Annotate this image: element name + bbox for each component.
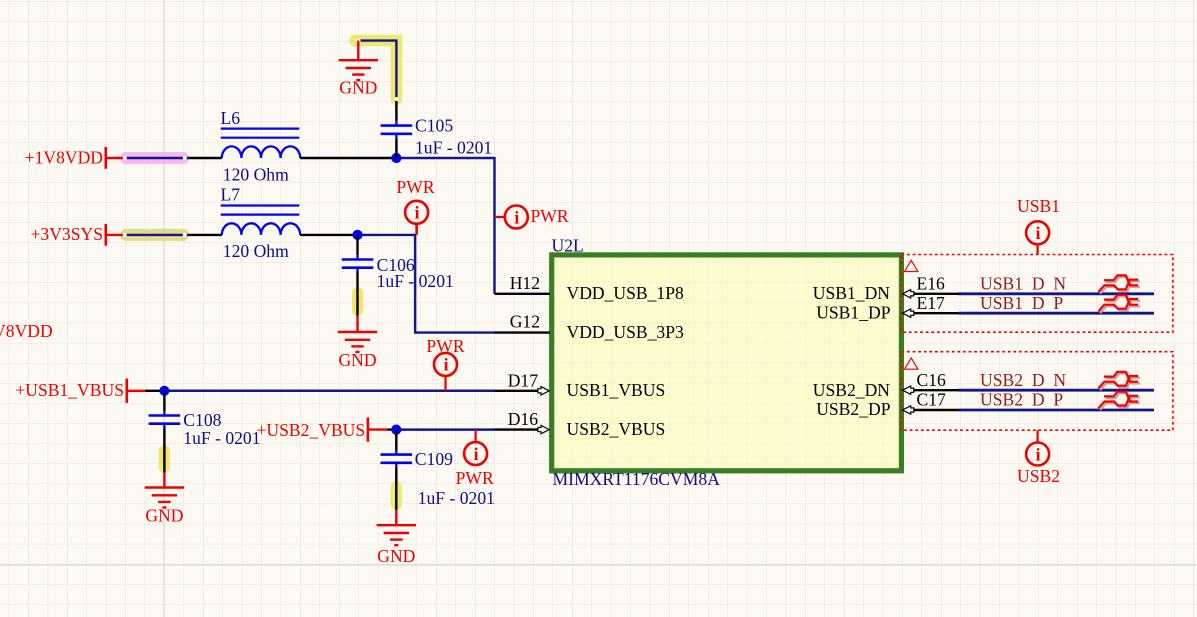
differential pair directive (USB2_D_P) — [1098, 392, 1140, 410]
power directive PWR (at H12 wire) — [495, 206, 569, 229]
ground GND (top) — [339, 41, 378, 98]
junction node +USB2_VBUS — [391, 425, 401, 435]
wire junction to H12 corner — [396, 158, 494, 294]
differential pair directive (USB2_D_N) — [1098, 372, 1140, 390]
junction node +1V8VDD — [391, 153, 401, 163]
pin C17 — [903, 390, 959, 415]
wire +1V8VDD to L6 — [123, 156, 222, 160]
svg-text:+USB1_VBUS: +USB1_VBUS — [15, 380, 124, 400]
directive USB2 — [1017, 430, 1060, 486]
port +1V8VDD — [25, 147, 124, 169]
power directive PWR (at L7 wire) — [396, 177, 434, 235]
svg-text:USB1_DN: USB1_DN — [813, 283, 891, 303]
pin G12 VDD_USB_3P3 — [495, 312, 685, 342]
svg-text:G12: G12 — [510, 312, 540, 332]
svg-text:+3V3SYS: +3V3SYS — [31, 224, 104, 244]
svg-text:VDD_USB_1P8: VDD_USB_1P8 — [567, 283, 685, 303]
wire L7 to junction — [300, 234, 357, 236]
inductor L6 — [221, 129, 301, 158]
svg-text:+USB2_VBUS: +USB2_VBUS — [257, 420, 366, 440]
wire USB2_D_P — [959, 409, 1155, 412]
svg-text:USB1 D P: USB1 D P — [980, 293, 1063, 313]
junction node +USB1_VBUS — [159, 386, 169, 396]
svg-text:GND: GND — [338, 350, 376, 370]
compile mask triangle (USB2) — [905, 358, 918, 369]
svg-text:USB2 D P: USB2 D P — [980, 390, 1063, 410]
net highlight glow GND at C108 — [159, 445, 170, 472]
svg-text:PWR: PWR — [396, 177, 434, 197]
directive USB1 — [1017, 196, 1060, 255]
inductor L7 — [221, 206, 301, 235]
port +USB2_VBUS — [257, 417, 388, 441]
capacitor C106 — [342, 235, 374, 316]
wire +USB1_VBUS to D17 — [145, 390, 494, 392]
svg-text:1uF - 0201: 1uF - 0201 — [183, 428, 260, 448]
ground GND (C109) — [377, 510, 416, 566]
svg-text:H12: H12 — [510, 273, 540, 293]
differential pair directive (USB1_D_P) — [1098, 295, 1140, 313]
svg-text:USB2 D N: USB2 D N — [980, 370, 1066, 390]
wire +USB2_VBUS to D16 — [387, 428, 494, 430]
wire junction to G12 corner — [358, 235, 495, 333]
svg-text:C105: C105 — [415, 116, 453, 136]
wire +3V3SYS to L7 — [123, 233, 222, 237]
svg-text:D17: D17 — [508, 370, 539, 390]
capacitor C109 — [381, 430, 413, 510]
wire USB1_D_N — [959, 292, 1155, 295]
junction node +3V3SYS — [352, 230, 362, 240]
svg-text:E17: E17 — [917, 293, 946, 313]
svg-text:1uF - 0201: 1uF - 0201 — [377, 271, 454, 291]
power directive PWR (at D16 wire) — [456, 430, 494, 488]
svg-text:GND: GND — [145, 506, 183, 526]
net highlight glow +1V8VDD — [120, 152, 189, 164]
differential pair directive (USB1_D_N) — [1098, 275, 1140, 293]
svg-text:L6: L6 — [221, 108, 241, 128]
svg-text:VDD_USB_3P3: VDD_USB_3P3 — [567, 322, 685, 342]
pin D16 USB2_VBUS — [495, 409, 666, 439]
svg-text:USB2_DP: USB2_DP — [816, 399, 891, 419]
svg-text:+1V8VDD: +1V8VDD — [25, 147, 103, 167]
wire GND to C105 — [357, 39, 399, 122]
blanket directive box USB1 — [901, 255, 1173, 333]
svg-text:1uF - 0201: 1uF - 0201 — [418, 488, 495, 508]
svg-text:D16: D16 — [508, 409, 539, 429]
svg-text:E16: E16 — [917, 273, 946, 293]
svg-text:USB2: USB2 — [1017, 466, 1060, 486]
pin E16 — [903, 273, 959, 298]
power directive PWR (at D17 wire) — [426, 336, 464, 391]
compile mask triangle (USB1) — [905, 260, 918, 271]
net highlight glow GND at C105 — [355, 41, 396, 100]
svg-text:GND: GND — [377, 546, 415, 566]
wire USB1_D_P — [959, 312, 1155, 315]
svg-text:+1V8VDD: +1V8VDD — [0, 321, 53, 341]
pin C16 — [903, 370, 959, 395]
svg-text:USB2_DN: USB2_DN — [813, 380, 891, 400]
pin H12 VDD_USB_1P8 — [495, 273, 685, 303]
ground GND (C106) — [338, 316, 377, 370]
svg-text:USB1: USB1 — [1017, 196, 1060, 216]
svg-text:U2L: U2L — [552, 235, 584, 255]
ground GND (C108) — [145, 473, 184, 526]
net highlight glow GND at C109 — [391, 481, 402, 510]
port +3V3SYS — [31, 224, 124, 246]
svg-text:USB1_VBUS: USB1_VBUS — [567, 380, 666, 400]
svg-text:USB1_DP: USB1_DP — [816, 302, 891, 322]
pin E17 — [903, 293, 959, 318]
svg-text:120 Ohm: 120 Ohm — [223, 164, 289, 184]
svg-text:MIMXRT1176CVM8A: MIMXRT1176CVM8A — [553, 469, 721, 489]
svg-text:USB2_VBUS: USB2_VBUS — [567, 419, 666, 439]
net highlight glow GND at C106 — [352, 288, 363, 316]
net highlight glow +3V3SYS — [120, 229, 189, 241]
svg-text:PWR: PWR — [531, 206, 569, 226]
wire L6 to junction — [300, 157, 396, 159]
svg-text:PWR: PWR — [456, 468, 494, 488]
svg-text:C109: C109 — [415, 449, 453, 469]
pin D17 USB1_VBUS — [495, 370, 666, 400]
port +USB1_VBUS — [15, 379, 145, 403]
svg-text:USB1 D N: USB1 D N — [980, 273, 1066, 293]
blanket directive box USB2 — [901, 352, 1173, 431]
capacitor C105 — [381, 121, 413, 158]
svg-text:120 Ohm: 120 Ohm — [223, 241, 289, 261]
svg-text:GND: GND — [339, 78, 377, 98]
svg-text:C17: C17 — [917, 390, 947, 410]
wire USB2_D_N — [959, 389, 1155, 392]
op-amp U2L body (IC MIMXRT1176CVM8A) — [552, 255, 902, 471]
svg-text:L7: L7 — [221, 185, 241, 205]
capacitor C108 — [149, 391, 181, 473]
svg-text:C16: C16 — [917, 370, 947, 390]
svg-text:1uF - 0201: 1uF - 0201 — [415, 138, 492, 158]
